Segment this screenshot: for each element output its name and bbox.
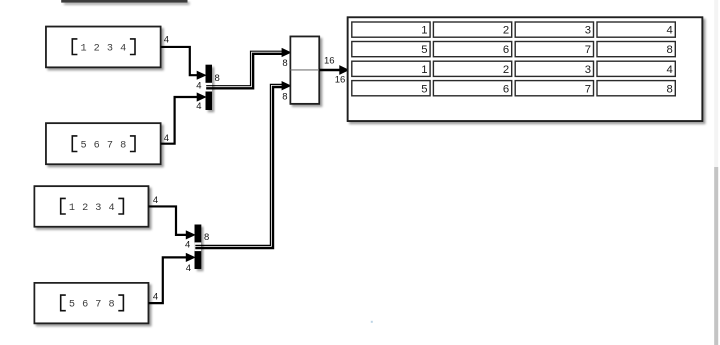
display cell r4c1 value 5 — [352, 81, 430, 96]
svg-text:3: 3 — [585, 64, 591, 76]
constant block Constant4 value [5 6 7 8] — [34, 283, 148, 323]
svg-text:16: 16 — [335, 75, 346, 86]
svg-text:1: 1 — [421, 64, 427, 76]
svg-text:4: 4 — [185, 240, 190, 251]
display cell r3c3 value 3 — [515, 61, 593, 76]
svg-text:4: 4 — [196, 81, 201, 92]
svg-text:6: 6 — [503, 83, 509, 95]
annotation block cut off at top: shadow — [64, 2, 190, 5]
svg-text:1 2 3 4: 1 2 3 4 — [69, 203, 115, 214]
svg-text:1 2 3 4: 1 2 3 4 — [80, 43, 126, 54]
svg-text:5 6 7 8: 5 6 7 8 — [69, 300, 115, 311]
svg-text:2: 2 — [503, 64, 509, 76]
annotation block cut off at top: bottom edge — [61, 0, 187, 3]
svg-text:4: 4 — [164, 35, 169, 46]
display cell r4c2 value 6 — [433, 81, 511, 96]
svg-text:8: 8 — [215, 73, 220, 84]
canvas artifact dot — [371, 321, 373, 323]
svg-text:5: 5 — [421, 83, 427, 95]
svg-text:4: 4 — [667, 25, 673, 37]
svg-text:4: 4 — [153, 195, 158, 206]
scrollbar track — [714, 0, 718, 345]
display cell r2c4 value 8 — [597, 42, 675, 57]
display block Display — [348, 17, 703, 121]
svg-text:4: 4 — [153, 292, 158, 303]
svg-text:4: 4 — [196, 101, 201, 112]
wide wire: Mux1 -> Concatenate input 1 — [206, 49, 290, 89]
display cell r2c1 value 5 — [352, 42, 430, 57]
svg-text:8: 8 — [667, 83, 673, 95]
wire: Constant3 -> Mux2 input 1 — [148, 206, 194, 238]
display cell r4c3 value 7 — [515, 81, 593, 96]
svg-text:3: 3 — [585, 25, 591, 37]
svg-text:7: 7 — [585, 83, 591, 95]
svg-text:8: 8 — [204, 232, 209, 243]
scrollbar thumb — [714, 167, 718, 345]
svg-text:5: 5 — [421, 44, 427, 56]
mux Mux1 — [206, 65, 213, 110]
display cell r3c1 value 1 — [352, 61, 430, 76]
svg-text:5 6 7 8: 5 6 7 8 — [80, 140, 126, 151]
svg-text:4: 4 — [164, 133, 169, 144]
display cell r1c2 value 2 — [433, 22, 511, 37]
display cell r1c4 value 4 — [597, 22, 675, 37]
wire: Constant4 -> Mux2 input 2 — [148, 254, 194, 304]
mux Mux2 — [195, 225, 202, 269]
svg-text:7: 7 — [585, 44, 591, 56]
wire: Constant2 -> Mux1 input 2 — [161, 93, 206, 144]
svg-text:16: 16 — [324, 56, 335, 67]
wire: Constant1 -> Mux1 input 1 — [161, 47, 206, 79]
display cell r3c2 value 2 — [433, 61, 511, 76]
constant block Constant1 value [1 2 3 4] — [46, 27, 161, 68]
svg-text:8: 8 — [667, 44, 673, 56]
wide wire: Mux2 -> Concatenate input 2 — [195, 82, 290, 248]
constant block Constant3 value [1 2 3 4] — [34, 186, 148, 227]
display cell r2c2 value 6 — [433, 42, 511, 57]
display cell r1c1 value 1 — [352, 22, 430, 37]
svg-text:4: 4 — [667, 64, 673, 76]
display cell r2c3 value 7 — [515, 42, 593, 57]
display cell r1c3 value 3 — [515, 22, 593, 37]
wire: Concatenate -> Display — [319, 66, 348, 74]
svg-text:8: 8 — [282, 58, 287, 69]
vector concatenate block U1 — [290, 37, 319, 104]
svg-text:4: 4 — [186, 263, 191, 274]
constant block Constant2 value [5 6 7 8] — [46, 123, 161, 164]
svg-text:2: 2 — [503, 25, 509, 37]
display cell r4c4 value 8 — [597, 81, 675, 96]
svg-text:6: 6 — [503, 44, 509, 56]
svg-text:1: 1 — [421, 25, 427, 37]
display cell r3c4 value 4 — [597, 61, 675, 76]
svg-text:8: 8 — [282, 91, 287, 102]
